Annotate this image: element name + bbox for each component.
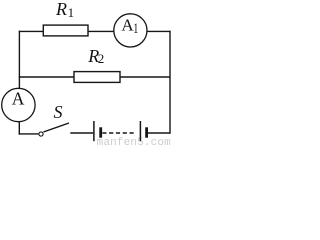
svg-text:1: 1 <box>68 5 75 20</box>
dashed wire between cells <box>102 132 135 134</box>
wire top-left horizontal <box>19 30 44 32</box>
wire between R1 and A1 <box>88 30 115 32</box>
battery cell 2 short thick plate <box>145 127 148 137</box>
battery cell 1 short thick plate <box>99 127 102 137</box>
ammeter A1 <box>114 14 147 47</box>
svg-text:A: A <box>12 89 25 109</box>
wire switch to battery <box>70 132 93 134</box>
wire bottom-left <box>19 133 39 135</box>
switch S contact circle <box>39 132 43 136</box>
svg-text:manfen5.com: manfen5.com <box>97 137 172 146</box>
wire middle branch right <box>120 76 171 78</box>
battery cell 1 long plate <box>93 121 95 141</box>
wire middle branch left <box>19 76 75 78</box>
svg-text:R: R <box>55 0 67 19</box>
wire right rail <box>169 31 171 134</box>
wire A1 to top-right corner <box>146 30 170 32</box>
svg-text:1: 1 <box>133 20 138 36</box>
battery cell 2 long plate <box>139 121 141 141</box>
svg-text:A: A <box>121 15 134 34</box>
resistor R1 <box>43 25 88 36</box>
wire left rail <box>18 31 20 89</box>
ammeter A <box>2 88 35 121</box>
resistor R2 <box>74 72 120 83</box>
switch S lever <box>43 123 69 132</box>
wire below ammeter A <box>18 121 20 134</box>
svg-text:2: 2 <box>98 51 105 66</box>
svg-text:S: S <box>54 102 63 122</box>
wire battery to bottom-right corner <box>148 132 171 134</box>
